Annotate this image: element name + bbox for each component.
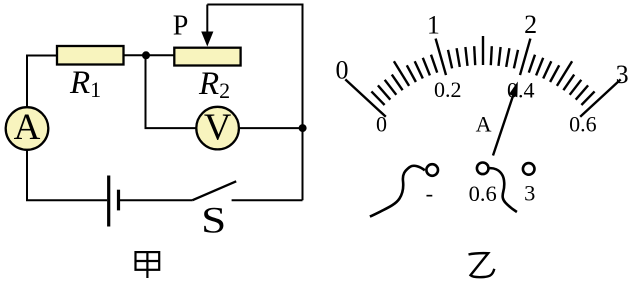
switch S blade (192, 181, 236, 200)
wire ammeter bottom to bottom-left corner (27, 150, 107, 201)
node junction left (R1 / voltmeter branch) (142, 51, 150, 59)
needle (493, 82, 518, 156)
svg-text:1: 1 (427, 10, 440, 39)
svg-text:3: 3 (524, 181, 535, 206)
svg-text:0: 0 (336, 56, 349, 85)
label jia (circuit 甲) drawn as strokes (136, 252, 160, 278)
resistor R1 (57, 46, 124, 65)
battery (109, 176, 119, 227)
svg-text:-: - (426, 181, 434, 206)
node junction right (voltmeter / right branch) (299, 124, 307, 132)
meter scale ticks (345, 36, 620, 117)
svg-text:A: A (14, 107, 41, 148)
terminal 0.6 (477, 163, 489, 175)
label yi (meter 乙) drawn as strokes (469, 253, 495, 277)
svg-text:P: P (173, 11, 189, 42)
wire junction down to voltmeter (146, 55, 197, 128)
terminal 3 (523, 163, 535, 175)
wire R1 right to rheostat R2 left (124, 54, 175, 56)
wire from slider top across to right branch (207, 5, 302, 201)
wire switch right contact to bottom-right corner (232, 199, 303, 201)
svg-text:3: 3 (616, 60, 629, 89)
voltmeter U-V (196, 107, 239, 150)
wire battery to switch (120, 199, 192, 201)
wire lead at 0.6 terminal (487, 168, 517, 212)
wire lead at minus terminal (370, 166, 425, 217)
wire top-left horizontal from left branch to R1 (27, 56, 57, 108)
slider P arrow onto R2 (201, 5, 213, 47)
ammeter U-A (6, 107, 49, 150)
svg-text:V: V (204, 107, 232, 149)
terminal minus (426, 164, 438, 176)
svg-text:0.6: 0.6 (469, 181, 497, 206)
svg-text:2: 2 (524, 10, 537, 39)
svg-text:0: 0 (376, 112, 387, 137)
rheostat R2 (174, 48, 240, 66)
svg-text:S: S (201, 199, 226, 240)
svg-text:0.6: 0.6 (569, 112, 597, 137)
svg-text:0.2: 0.2 (434, 77, 462, 102)
svg-text:A: A (476, 112, 492, 137)
wire voltmeter right to right branch (239, 127, 303, 129)
